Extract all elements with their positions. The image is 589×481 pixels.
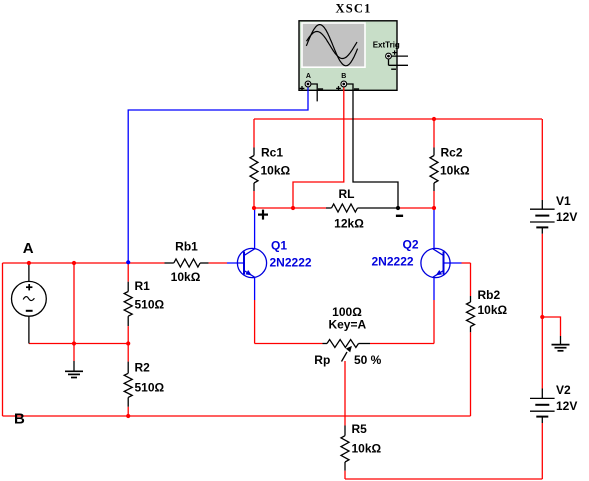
- svg-text:510Ω: 510Ω: [135, 381, 165, 395]
- svg-text:RL: RL: [339, 187, 355, 201]
- svg-text:Rc2: Rc2: [441, 146, 463, 160]
- svg-text:Key=A: Key=A: [328, 318, 366, 332]
- svg-text:10kΩ: 10kΩ: [261, 164, 291, 178]
- svg-text:Q2: Q2: [403, 238, 419, 252]
- svg-text:12V: 12V: [556, 210, 577, 224]
- svg-text:2N2222: 2N2222: [372, 255, 414, 269]
- svg-text:ExtTrig: ExtTrig: [373, 41, 400, 50]
- svg-text:Rb1: Rb1: [175, 240, 198, 254]
- svg-text:10kΩ: 10kΩ: [171, 270, 201, 284]
- svg-text:10kΩ: 10kΩ: [352, 442, 382, 456]
- svg-text:R5: R5: [352, 422, 368, 436]
- svg-text:2N2222: 2N2222: [270, 256, 312, 270]
- svg-text:R2: R2: [135, 361, 151, 375]
- svg-text:10kΩ: 10kΩ: [440, 164, 470, 178]
- svg-text:Rp: Rp: [314, 353, 330, 367]
- svg-text:12V: 12V: [556, 399, 577, 413]
- svg-text:510Ω: 510Ω: [135, 298, 165, 312]
- svg-text:10kΩ: 10kΩ: [478, 303, 508, 317]
- svg-text:V2: V2: [556, 383, 571, 397]
- svg-text:A: A: [306, 73, 311, 80]
- svg-text:XSC1: XSC1: [335, 2, 371, 16]
- svg-text:B: B: [14, 410, 25, 427]
- svg-text:Rb2: Rb2: [478, 288, 501, 302]
- svg-text:50 %: 50 %: [354, 353, 382, 367]
- svg-text:A: A: [23, 240, 34, 257]
- svg-text:B: B: [341, 73, 346, 80]
- svg-text:Q1: Q1: [271, 239, 287, 253]
- svg-text:12kΩ: 12kΩ: [334, 217, 364, 231]
- svg-text:V1: V1: [556, 194, 571, 208]
- svg-text:R1: R1: [135, 279, 151, 293]
- svg-text:Rc1: Rc1: [261, 146, 283, 160]
